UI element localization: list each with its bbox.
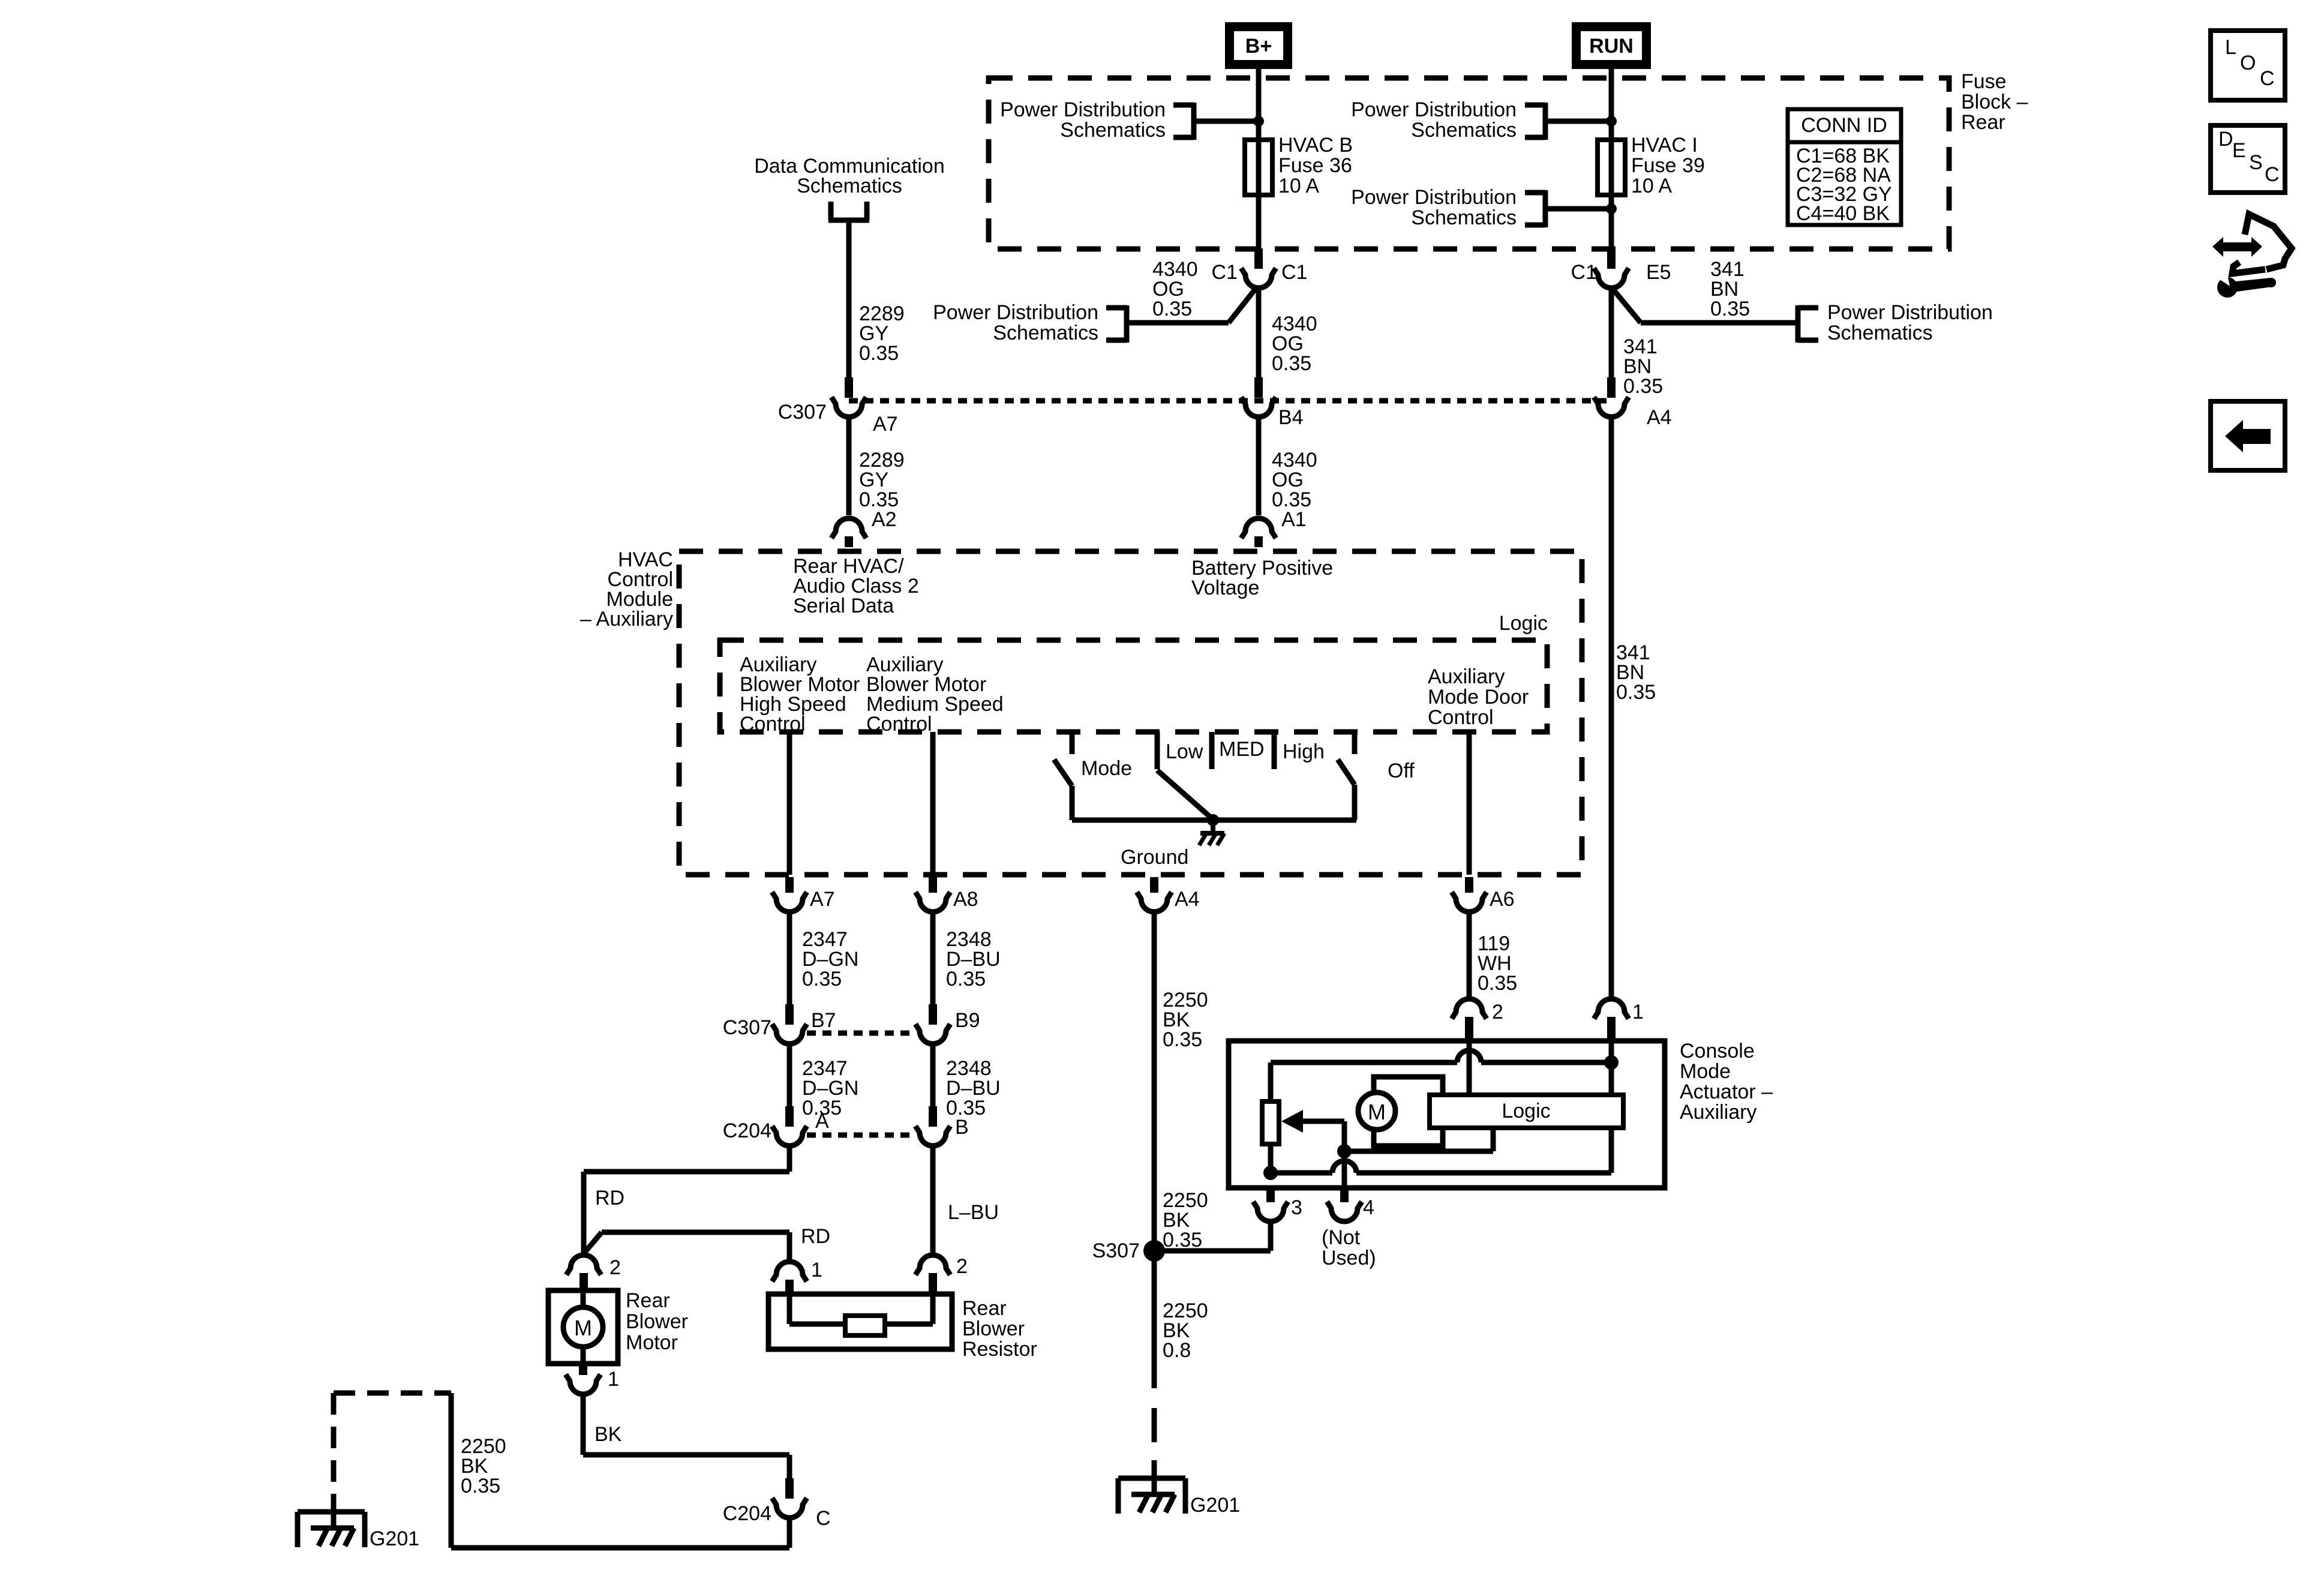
- svg-text:Power Distribution: Power Distribution: [1351, 186, 1517, 209]
- svg-text:MED: MED: [1219, 738, 1265, 761]
- svg-text:B7: B7: [811, 1009, 836, 1032]
- svg-text:Mode: Mode: [1081, 757, 1132, 780]
- svg-text:E: E: [2232, 139, 2246, 162]
- svg-text:2: 2: [609, 1256, 621, 1279]
- svg-text:Power Distribution: Power Distribution: [1000, 98, 1166, 121]
- svg-text:Power Distribution: Power Distribution: [933, 301, 1098, 324]
- svg-text:Blower: Blower: [962, 1317, 1025, 1340]
- svg-text:Fuse: Fuse: [1961, 70, 2007, 93]
- svg-text:O: O: [2240, 52, 2256, 74]
- svg-text:0.35: 0.35: [1623, 375, 1663, 398]
- svg-text:HVAC B: HVAC B: [1278, 134, 1353, 157]
- svg-text:C1: C1: [1281, 261, 1307, 284]
- svg-text:Logic: Logic: [1499, 612, 1548, 635]
- svg-text:0.35: 0.35: [802, 968, 842, 990]
- svg-text:Mode Door: Mode Door: [1428, 686, 1529, 709]
- svg-text:0.35: 0.35: [859, 342, 899, 365]
- svg-text:Control: Control: [866, 713, 932, 736]
- svg-text:Off: Off: [1388, 760, 1415, 782]
- svg-text:0.35: 0.35: [1272, 352, 1311, 375]
- svg-text:C: C: [816, 1507, 831, 1530]
- svg-text:Mode: Mode: [1680, 1060, 1731, 1083]
- svg-text:B+: B+: [1245, 35, 1272, 58]
- svg-text:Ground: Ground: [1121, 846, 1188, 869]
- svg-text:M: M: [1368, 1100, 1386, 1124]
- svg-text:Schematics: Schematics: [1411, 206, 1517, 229]
- svg-text:A7: A7: [810, 888, 835, 911]
- svg-text:Actuator –: Actuator –: [1680, 1080, 1773, 1103]
- svg-text:2: 2: [1492, 1001, 1503, 1023]
- svg-text:Low: Low: [1166, 740, 1203, 763]
- svg-text:B: B: [955, 1116, 969, 1139]
- svg-text:(Not: (Not: [1322, 1226, 1361, 1249]
- svg-text:High: High: [1283, 740, 1325, 763]
- svg-text:Block –: Block –: [1961, 91, 2028, 113]
- svg-text:CONN ID: CONN ID: [1801, 114, 1887, 137]
- svg-text:Fuse 39: Fuse 39: [1631, 154, 1705, 177]
- svg-text:Fuse 36: Fuse 36: [1278, 154, 1352, 177]
- svg-text:B4: B4: [1278, 406, 1304, 429]
- svg-text:Auxiliary: Auxiliary: [1428, 665, 1505, 688]
- svg-text:RD: RD: [801, 1225, 830, 1248]
- svg-text:Schematics: Schematics: [1060, 119, 1166, 142]
- svg-text:A6: A6: [1490, 888, 1515, 911]
- svg-text:Control: Control: [740, 713, 806, 736]
- svg-text:0.35: 0.35: [1152, 298, 1192, 320]
- svg-text:1: 1: [1632, 1001, 1644, 1023]
- svg-text:0.35: 0.35: [461, 1475, 500, 1497]
- svg-text:C4=40 BK: C4=40 BK: [1796, 202, 1890, 225]
- svg-text:Blower: Blower: [626, 1310, 688, 1333]
- svg-text:Control: Control: [1428, 706, 1494, 729]
- svg-text:S307: S307: [1092, 1239, 1140, 1262]
- svg-text:0.8: 0.8: [1163, 1339, 1191, 1362]
- svg-text:0.35: 0.35: [1163, 1229, 1202, 1251]
- svg-text:Schematics: Schematics: [797, 175, 902, 197]
- svg-text:HVAC I: HVAC I: [1631, 134, 1698, 157]
- svg-text:RUN: RUN: [1589, 35, 1634, 58]
- svg-text:G201: G201: [1190, 1494, 1240, 1517]
- svg-text:Rear: Rear: [1961, 111, 2005, 134]
- svg-text:3: 3: [1291, 1196, 1302, 1219]
- svg-text:10 A: 10 A: [1278, 175, 1319, 197]
- svg-text:A: A: [815, 1110, 829, 1133]
- svg-text:Schematics: Schematics: [993, 322, 1098, 344]
- svg-text:0.35: 0.35: [946, 968, 986, 990]
- svg-text:A2: A2: [872, 508, 897, 531]
- svg-text:0.35: 0.35: [1616, 681, 1656, 704]
- svg-text:Rear: Rear: [626, 1289, 670, 1312]
- svg-text:2: 2: [956, 1255, 968, 1278]
- svg-text:L–BU: L–BU: [948, 1201, 999, 1224]
- svg-text:Used): Used): [1322, 1247, 1376, 1269]
- svg-text:– Auxiliary: – Auxiliary: [580, 608, 673, 631]
- svg-text:Logic: Logic: [1502, 1100, 1550, 1122]
- svg-text:Auxiliary: Auxiliary: [1680, 1101, 1756, 1124]
- svg-text:S: S: [2249, 151, 2263, 174]
- svg-text:0.35: 0.35: [1478, 972, 1517, 995]
- svg-text:C: C: [2265, 163, 2280, 186]
- svg-text:Resistor: Resistor: [962, 1338, 1037, 1361]
- svg-text:Motor: Motor: [626, 1331, 678, 1354]
- svg-text:Power Distribution: Power Distribution: [1827, 301, 1993, 324]
- svg-text:Schematics: Schematics: [1411, 119, 1517, 142]
- svg-text:C1: C1: [1212, 261, 1238, 284]
- svg-text:E5: E5: [1646, 261, 1671, 284]
- svg-text:B9: B9: [955, 1009, 980, 1032]
- svg-text:M: M: [574, 1316, 592, 1340]
- svg-text:Schematics: Schematics: [1827, 322, 1933, 344]
- svg-text:A7: A7: [873, 413, 898, 436]
- svg-text:D: D: [2218, 128, 2233, 151]
- svg-text:Voltage: Voltage: [1191, 577, 1259, 599]
- svg-text:1: 1: [608, 1368, 619, 1391]
- svg-text:Serial Data: Serial Data: [793, 595, 894, 617]
- svg-text:Power Distribution: Power Distribution: [1351, 98, 1517, 121]
- svg-text:0.35: 0.35: [1163, 1028, 1202, 1051]
- svg-text:BK: BK: [594, 1423, 622, 1446]
- svg-text:1: 1: [811, 1259, 822, 1281]
- svg-text:Rear: Rear: [962, 1297, 1007, 1320]
- svg-text:4: 4: [1363, 1196, 1374, 1219]
- svg-text:A1: A1: [1281, 508, 1307, 531]
- svg-text:A4: A4: [1175, 888, 1200, 911]
- svg-text:C: C: [2260, 67, 2275, 90]
- svg-text:C1: C1: [1571, 261, 1597, 284]
- svg-text:A4: A4: [1647, 406, 1672, 429]
- svg-text:C307: C307: [778, 401, 827, 424]
- svg-text:Console: Console: [1680, 1040, 1755, 1062]
- svg-text:RD: RD: [595, 1187, 624, 1209]
- svg-text:G201: G201: [370, 1527, 419, 1550]
- svg-text:0.35: 0.35: [1710, 298, 1750, 320]
- svg-text:L: L: [2225, 36, 2236, 59]
- svg-text:A8: A8: [953, 888, 978, 911]
- svg-text:C204: C204: [723, 1119, 771, 1142]
- svg-text:10 A: 10 A: [1631, 175, 1672, 197]
- svg-text:C307: C307: [723, 1016, 771, 1039]
- svg-text:C204: C204: [723, 1502, 771, 1525]
